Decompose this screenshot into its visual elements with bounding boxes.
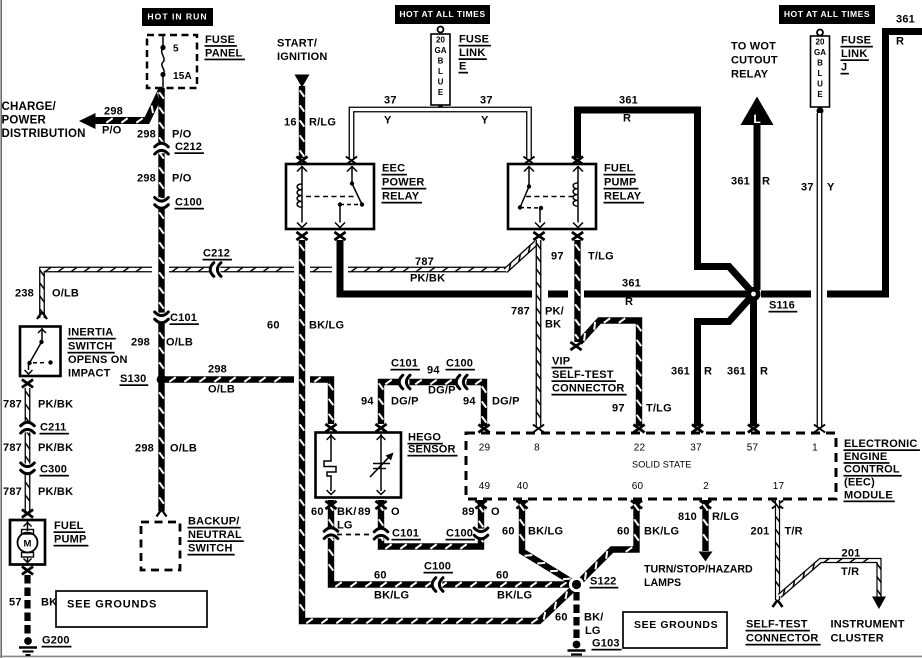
wire label 97 (lower) <box>612 403 625 415</box>
svg-text:P/O: P/O <box>102 125 122 137</box>
svg-text:RELAY: RELAY <box>382 191 420 203</box>
VIP self-test connector point <box>570 342 581 350</box>
svg-text:89: 89 <box>462 506 475 518</box>
label CHARGE/POWER DISTRIBUTION <box>2 101 86 140</box>
svg-text:60: 60 <box>267 320 280 332</box>
svg-text:T/LG: T/LG <box>588 251 614 263</box>
svg-text:SEE GROUNDS: SEE GROUNDS <box>67 599 157 611</box>
wire 94 DG/P (HEGO to EEC pin 29) <box>379 380 487 426</box>
svg-text:R: R <box>760 366 768 378</box>
svg-text:PK/BK: PK/BK <box>38 399 73 411</box>
wire label 60 (long) <box>267 320 280 332</box>
wire 201 T/R (branch to instrument cluster) <box>780 558 887 609</box>
svg-text:SELF-TEST: SELF-TEST <box>746 619 808 631</box>
wire label 60 (G103) <box>555 612 568 624</box>
svg-text:238: 238 <box>15 288 34 300</box>
connector C211 <box>21 422 69 435</box>
wire label 298 O/LB (above backup switch) <box>135 443 197 455</box>
off-page arrow TO WOT CUTOUT RELAY <box>741 97 774 127</box>
pin connector (EEC relay bottom right) <box>334 232 345 240</box>
svg-text:DISTRIBUTION: DISTRIBUTION <box>2 128 86 140</box>
wire label 361 (pin 37) <box>671 366 690 378</box>
fuse panel (dashed box with 5A fuse) <box>147 35 197 89</box>
svg-text:HOT AT ALL TIMES: HOT AT ALL TIMES <box>399 9 485 19</box>
svg-text:NEUTRAL: NEUTRAL <box>188 529 242 541</box>
svg-text:PUMP: PUMP <box>604 177 637 189</box>
header HOT IN RUN <box>142 8 213 26</box>
electronic engine control module (dashed box) <box>466 433 836 499</box>
wire label 298 (S130 branch) <box>208 364 227 376</box>
svg-text:C101: C101 <box>391 358 418 370</box>
wire label 60 (HEGO) <box>311 506 324 518</box>
svg-text:97: 97 <box>612 403 625 415</box>
wire 238 O/LB / 787 PK/BK double line (inertia switch to fuel pump relay) <box>37 243 536 319</box>
wire 60 BK/LG (S122 to ground G103) <box>573 592 579 640</box>
pin connector EEC pin 37 <box>692 425 703 433</box>
HEGO sensor box <box>316 433 402 498</box>
label FUSE LINK E <box>459 34 491 74</box>
wire 57 BK (fuel pump to ground G200) <box>24 575 30 637</box>
wire 16 R/LG (start/ignition to EEC power relay) <box>300 86 305 158</box>
wire label 361 (top feed) <box>619 95 638 107</box>
svg-text:CONNECTOR: CONNECTOR <box>746 633 819 645</box>
svg-text:LG: LG <box>585 625 601 637</box>
pin connector EEC pin 8 <box>533 425 544 433</box>
wire label DG/P (left) <box>391 396 419 408</box>
fuel pump relay box <box>508 164 596 229</box>
svg-text:POWER: POWER <box>382 177 425 189</box>
connector chevron C100 (89 wire right) <box>474 528 488 539</box>
svg-text:17: 17 <box>773 481 785 492</box>
wire label PK/BK (horizontal) <box>410 273 445 285</box>
label BACKUP/NEUTRAL SWITCH <box>188 516 244 556</box>
svg-text:FUSE: FUSE <box>841 35 871 47</box>
svg-text:15A: 15A <box>173 71 192 82</box>
svg-text:5: 5 <box>173 43 179 54</box>
wire label BK/ 89 (HEGO) <box>337 506 371 518</box>
pin connector (HEGO left) <box>325 424 336 432</box>
connector C101 (HEGO-60 wire) <box>324 527 338 538</box>
svg-text:S122: S122 <box>590 576 617 588</box>
inertia switch box <box>20 327 61 377</box>
svg-text:B: B <box>438 56 444 65</box>
pin connector (inertia switch bottom) <box>22 380 33 388</box>
pin number 1 (EEC top) <box>812 442 818 453</box>
svg-text:201: 201 <box>751 526 770 538</box>
self-test connector end <box>773 600 783 607</box>
svg-text:O/LB: O/LB <box>166 337 193 349</box>
svg-text:361: 361 <box>896 14 915 26</box>
svg-text:BK: BK <box>545 319 561 331</box>
pin connector (HEGO right) <box>375 424 386 432</box>
svg-text:60: 60 <box>617 526 630 538</box>
svg-text:C100: C100 <box>446 358 473 370</box>
see grounds box (left) <box>56 591 207 627</box>
header HOT AT ALL TIMES (fuse link J) <box>779 5 875 24</box>
pin connector (361 R at fuel pump relay) <box>572 157 583 165</box>
wire label 60 (pin40) <box>502 526 515 538</box>
wire label 787 PK/BK (row3) <box>3 486 73 498</box>
connector C212 (on 298 wire) <box>155 141 204 154</box>
svg-text:PK/BK: PK/BK <box>410 273 445 285</box>
pin connector (fuel pump relay bottom left) <box>533 232 544 240</box>
svg-text:BACKUP/: BACKUP/ <box>188 516 240 528</box>
connector C100 (on 60 horizontal) <box>424 561 453 592</box>
svg-text:787: 787 <box>3 399 22 411</box>
svg-text:O/LB: O/LB <box>52 288 79 300</box>
svg-text:C100: C100 <box>446 528 473 540</box>
wire 298 P/O to charge/power distribution (arrow) <box>79 89 162 129</box>
wire label 201 (pin17) <box>751 526 770 538</box>
wire 361 R (S116 to EEC pin 57) <box>750 294 757 426</box>
label HEGO SENSOR <box>408 432 458 457</box>
EEC power relay box <box>286 164 374 229</box>
wire label 298 (arrow) <box>104 106 123 118</box>
svg-text:BK/: BK/ <box>337 506 357 518</box>
svg-text:94: 94 <box>361 396 374 408</box>
wire label R (WOT) <box>762 176 770 188</box>
svg-text:DG/P: DG/P <box>391 396 419 408</box>
wire label 361 (top right) <box>896 14 915 26</box>
wire 361 R (S116 to EEC pin 37) <box>698 297 752 426</box>
svg-text:C100: C100 <box>424 561 451 573</box>
wire label 787 (horizontal) <box>415 256 434 268</box>
svg-text:LG: LG <box>337 520 353 532</box>
label START/IGNITION <box>277 38 328 64</box>
pin connector EEC pin 57 <box>748 425 759 433</box>
svg-text:P/O: P/O <box>172 173 192 185</box>
svg-text:(EEC): (EEC) <box>844 477 875 489</box>
label ELECTRONIC ENGINE CONTROL (EEC) MODULE <box>844 438 920 502</box>
fuse link J symbol <box>811 30 830 108</box>
label EEC POWER RELAY <box>382 163 427 204</box>
pin connector (HEGO bottom right) <box>375 501 386 509</box>
wire 298 O/LB from S130 to HEGO sensor <box>165 377 333 424</box>
svg-text:PUMP: PUMP <box>54 534 87 546</box>
wire label 60 (left of C100) <box>374 570 387 582</box>
label C100 (bottom) <box>446 528 475 541</box>
svg-text:PK/: PK/ <box>545 306 564 318</box>
svg-text:LINK: LINK <box>841 48 867 60</box>
wire label T/LG (upper) <box>588 251 614 263</box>
wire label R (horizontal) <box>625 296 633 308</box>
pin number 29 (EEC top) <box>479 442 491 453</box>
svg-text:89: 89 <box>358 506 371 518</box>
svg-text:SWITCH: SWITCH <box>68 341 113 353</box>
node S122 <box>569 576 618 593</box>
header HOT AT ALL TIMES (fuse link E) <box>395 5 490 24</box>
wire label 60 (pin60) <box>617 526 630 538</box>
svg-text:C300: C300 <box>40 464 67 476</box>
svg-text:CLUSTER: CLUSTER <box>831 633 884 645</box>
wire label BK/LG (left of C100) <box>374 590 409 602</box>
connector C100 (on 298 wire) <box>155 197 204 210</box>
svg-text:ENGINE: ENGINE <box>844 451 887 463</box>
wire label 787 PK/BK (row1) <box>3 399 73 411</box>
svg-text:BK/LG: BK/LG <box>309 320 344 332</box>
svg-text:FUEL: FUEL <box>604 163 634 175</box>
svg-text:START/: START/ <box>277 38 317 50</box>
junction dot at fuse link E <box>437 105 444 112</box>
wire label 298 (below C212) <box>137 173 156 185</box>
svg-text:RELAY: RELAY <box>604 191 642 203</box>
label VIP SELF-TEST CONNECTOR <box>552 356 627 396</box>
wire label O/LB (S130 branch) <box>208 384 235 396</box>
svg-text:J: J <box>841 62 847 74</box>
wire 361 R horizontal (EEC relay to S116 and right edge) <box>340 32 922 298</box>
wire label 238 <box>15 288 34 300</box>
svg-text:60: 60 <box>496 570 509 582</box>
label FUSE LINK J <box>841 35 873 75</box>
fuse link E symbol <box>431 27 450 106</box>
backup/neutral switch (dashed box) <box>141 522 180 570</box>
wire label R/LG <box>309 117 336 129</box>
svg-text:60: 60 <box>502 526 515 538</box>
wire label T/R (pin17) <box>785 526 803 538</box>
svg-text:810: 810 <box>678 511 697 523</box>
svg-text:MODULE: MODULE <box>844 489 893 501</box>
svg-text:R: R <box>623 113 631 125</box>
wire label R (top feed) <box>623 113 631 125</box>
svg-text:FUEL: FUEL <box>54 520 84 532</box>
svg-text:DG/P: DG/P <box>428 385 456 397</box>
svg-text:IGNITION: IGNITION <box>277 51 328 63</box>
svg-text:298: 298 <box>137 173 156 185</box>
svg-text:FUSE: FUSE <box>205 34 235 46</box>
svg-text:298: 298 <box>131 337 150 349</box>
pin number 17 (EEC bottom) <box>773 481 785 492</box>
connector C101 (on 94 wire) <box>391 358 420 389</box>
svg-text:C101: C101 <box>392 528 419 540</box>
wire 89 O (HEGO right pin to EEC pin 49) <box>379 500 484 549</box>
svg-text:37: 37 <box>801 182 814 194</box>
wire label 60 (right of C100) <box>496 570 509 582</box>
svg-text:P/O: P/O <box>172 129 192 141</box>
see grounds box (right) <box>623 612 727 648</box>
junction dot at fuse link J <box>817 107 824 114</box>
svg-text:SWITCH: SWITCH <box>188 543 233 555</box>
svg-text:ELECTRONIC: ELECTRONIC <box>844 438 918 450</box>
pin number 37 (EEC top) <box>690 442 702 453</box>
wire label DG/P (right) <box>492 396 520 408</box>
svg-text:BK/LG: BK/LG <box>644 526 679 538</box>
svg-text:TO WOT: TO WOT <box>731 41 776 53</box>
svg-text:298: 298 <box>137 129 156 141</box>
svg-text:U: U <box>438 77 444 86</box>
label FUEL PUMP <box>54 520 89 546</box>
svg-text:8: 8 <box>534 442 540 453</box>
connector chevron (89 wire left) <box>374 528 388 539</box>
svg-text:361: 361 <box>731 176 750 188</box>
connector C212 (on 787 wire) <box>203 248 232 277</box>
wire label 89 (right) <box>462 506 475 518</box>
node S130 <box>120 373 167 386</box>
svg-text:R: R <box>625 296 633 308</box>
wire label T/LG (lower) <box>646 403 672 415</box>
wire label 201 (cluster) <box>842 548 861 560</box>
svg-text:HOT IN RUN: HOT IN RUN <box>147 12 207 22</box>
svg-text:787: 787 <box>3 442 22 454</box>
pin number 22 (EEC top) <box>634 442 646 453</box>
svg-text:B: B <box>817 58 823 67</box>
svg-text:C212: C212 <box>203 248 230 260</box>
pin connector EEC pin 60 <box>631 501 642 509</box>
pin number 8 (EEC top) <box>534 442 540 453</box>
wire label 94 (right) <box>463 396 476 408</box>
svg-text:787: 787 <box>415 256 434 268</box>
wire label BK/LG (pin40) <box>528 526 563 538</box>
pin connector (fuel pump relay bottom right) <box>572 232 583 240</box>
svg-text:94: 94 <box>427 365 440 377</box>
wire 97 T/LG (VIP connector to EEC pin 22) <box>580 318 642 426</box>
connector C300 <box>21 463 69 477</box>
svg-text:37: 37 <box>690 442 702 453</box>
svg-text:Y: Y <box>827 182 835 194</box>
label TURN/STOP/HAZARD LAMPS <box>644 563 753 589</box>
pin number 2 (EEC bottom) <box>703 481 709 492</box>
pin connector EEC pin 17 <box>772 501 783 509</box>
wire label 57 <box>9 597 22 609</box>
wire 361 R (fuel pump relay to S116 via top) <box>578 110 752 291</box>
svg-text:HEGO: HEGO <box>408 432 441 444</box>
wire label BK/LG (G103) <box>584 612 604 638</box>
wire label Y (left) <box>384 115 392 127</box>
wire 37 Y (fuse link J to EEC pin 1) <box>817 113 823 426</box>
wire label R (pin 37) <box>704 366 712 378</box>
svg-text:787: 787 <box>3 486 22 498</box>
svg-text:DG/P: DG/P <box>492 396 520 408</box>
pin connector (37 Y at EEC relay) <box>346 157 357 165</box>
label FUEL PUMP RELAY <box>604 163 645 204</box>
svg-text:94: 94 <box>463 396 476 408</box>
label SOLID STATE <box>632 459 691 469</box>
svg-text:298: 298 <box>104 106 123 118</box>
svg-text:L: L <box>818 69 823 78</box>
svg-text:60: 60 <box>555 612 568 624</box>
label INERTIA SWITCH OPENS ON IMPACT <box>68 327 128 380</box>
wire label Y (fuse link J) <box>827 182 835 194</box>
wire label P/O (below C212) <box>172 173 192 185</box>
wire label DG/P (top) <box>428 385 456 397</box>
svg-text:Y: Y <box>481 115 489 127</box>
pin connector EEC pin 29 <box>478 425 489 433</box>
svg-text:OPENS ON: OPENS ON <box>68 354 128 366</box>
svg-text:E: E <box>438 88 444 97</box>
svg-text:G200: G200 <box>42 635 70 647</box>
svg-text:S116: S116 <box>769 300 795 312</box>
wire label LG (HEGO) <box>337 520 353 532</box>
svg-text:361: 361 <box>727 366 746 378</box>
connector C100 (on 94 wire) <box>446 358 475 389</box>
svg-text:CONTROL: CONTROL <box>844 464 900 476</box>
wire label 97 (upper) <box>551 251 564 263</box>
svg-text:E: E <box>459 61 467 73</box>
svg-text:16: 16 <box>284 117 297 129</box>
svg-text:361: 361 <box>619 95 638 107</box>
wire label O/LB (238) <box>52 288 79 300</box>
wire label P/O (arrow) <box>102 125 122 137</box>
pin connector EEC pin 2 <box>700 501 711 509</box>
svg-text:361: 361 <box>671 366 690 378</box>
wire 60 BK/LG (HEGO left pin to S122) <box>329 500 570 587</box>
wire 787 PK/BK (fuel pump relay to EEC pin 8) <box>536 240 541 426</box>
wire label 37 (right) <box>480 95 493 107</box>
wire label R/LG (810) <box>712 511 739 523</box>
svg-text:GA: GA <box>435 46 447 55</box>
svg-text:O: O <box>491 506 500 518</box>
svg-text:L: L <box>438 67 443 76</box>
svg-text:C211: C211 <box>40 422 67 434</box>
wire 201 T/R (EEC pin 17 to self-test connector) <box>775 500 780 600</box>
svg-text:O: O <box>391 506 400 518</box>
svg-text:RELAY: RELAY <box>731 69 769 81</box>
off-page arrow START/IGNITION <box>295 75 310 88</box>
fuel pump (motor M) <box>10 520 45 565</box>
svg-text:SEE GROUNDS: SEE GROUNDS <box>634 619 718 631</box>
svg-text:49: 49 <box>479 481 491 492</box>
wire label 787 PK/BK (row2) <box>3 442 73 454</box>
pin number 60 (EEC bottom) <box>632 481 644 492</box>
svg-text:TURN/STOP/HAZARD: TURN/STOP/HAZARD <box>644 563 753 575</box>
svg-text:PK/BK: PK/BK <box>38 442 73 454</box>
pin connector (37 Y at fuel pump relay) <box>523 157 534 165</box>
wire label 787 (vertical) <box>511 306 530 318</box>
svg-text:T/R: T/R <box>785 526 803 538</box>
svg-text:C100: C100 <box>175 197 202 209</box>
label FUSE PANEL <box>205 34 246 60</box>
svg-text:201: 201 <box>842 548 861 560</box>
pin connector (16 R/LG at EEC relay) <box>296 157 307 165</box>
svg-text:POWER: POWER <box>2 115 47 127</box>
ground G200 <box>19 635 72 655</box>
svg-text:BK: BK <box>41 597 57 609</box>
C101 dashed link <box>337 534 371 536</box>
svg-text:298: 298 <box>208 364 227 376</box>
ground G103 <box>568 638 622 655</box>
svg-text:37: 37 <box>480 95 493 107</box>
wire label 361 (horizontal) <box>622 278 641 290</box>
svg-text:BK/: BK/ <box>584 612 604 624</box>
fuse rating label 15A <box>173 71 192 82</box>
wire label 361 (pin 57) <box>727 366 746 378</box>
wire label O (HEGO) <box>391 506 400 518</box>
wire label 94 (top) <box>427 365 440 377</box>
pin connector EEC pin 49 <box>475 501 486 509</box>
svg-text:T/LG: T/LG <box>646 403 672 415</box>
svg-text:Y: Y <box>384 115 392 127</box>
svg-text:R: R <box>896 36 904 48</box>
svg-text:SENSOR: SENSOR <box>408 444 456 456</box>
wire label BK/LG (pin60) <box>644 526 679 538</box>
svg-text:BK/LG: BK/LG <box>528 526 563 538</box>
wire label 37 (fuse link J) <box>801 182 814 194</box>
svg-text:PANEL: PANEL <box>205 47 243 59</box>
svg-text:SOLID STATE: SOLID STATE <box>632 459 691 469</box>
pin connector (fuel pump top) <box>22 510 33 518</box>
label INSTRUMENT CLUSTER <box>831 619 905 645</box>
connector C101 (on 298 wire) <box>155 312 199 325</box>
svg-text:VIP: VIP <box>552 356 570 368</box>
wire label 298 (above C212) <box>137 129 156 141</box>
fuse rating label 5 <box>173 43 179 54</box>
svg-text:O/LB: O/LB <box>208 384 235 396</box>
svg-text:HOT AT ALL TIMES: HOT AT ALL TIMES <box>784 9 870 19</box>
wire label BK/LG (long) <box>309 320 344 332</box>
svg-text:INSTRUMENT: INSTRUMENT <box>831 619 905 631</box>
svg-text:BK/LG: BK/LG <box>374 590 409 602</box>
svg-text:CONNECTOR: CONNECTOR <box>552 383 625 395</box>
svg-text:57: 57 <box>747 442 759 453</box>
